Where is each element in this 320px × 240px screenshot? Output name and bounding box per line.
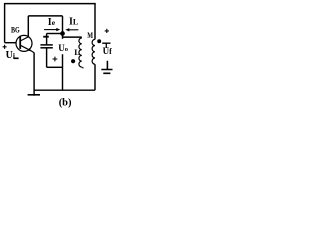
wire capacitor top	[47, 33, 63, 35]
inductor L primary coil	[79, 38, 82, 67]
wire node drop lower	[62, 54, 64, 90]
svg-text:BG: BG	[11, 24, 20, 34]
terminal T top	[102, 43, 110, 48]
transistor collector slant	[20, 37, 28, 41]
inductor secondary coil	[92, 39, 95, 64]
minus sign Uo top	[43, 36, 49, 38]
wire bottom rail	[34, 89, 95, 91]
plus sign Uf	[105, 29, 109, 33]
svg-text:L: L	[74, 47, 80, 57]
capacitor C bottom plate	[40, 47, 52, 49]
svg-text:(b): (b)	[59, 97, 72, 108]
wire inner top (collector to node)	[28, 15, 62, 17]
minus sign input	[13, 57, 18, 59]
transistor Q1 BG circle	[16, 35, 32, 51]
wire base lead	[5, 42, 17, 44]
arrow Ie	[44, 29, 57, 31]
wire top-right drop	[94, 4, 96, 40]
svg-text:IL: IL	[69, 17, 78, 28]
transistor base bar	[19, 36, 21, 49]
phase dot primary	[71, 59, 75, 63]
svg-text:Uf: Uf	[103, 46, 113, 56]
transistor emitter slant	[20, 45, 34, 53]
arrow IL	[67, 29, 78, 31]
wire emitter vertical	[33, 53, 35, 96]
svg-text:Ie: Ie	[48, 17, 56, 28]
wire secondary bottom lead	[94, 64, 96, 90]
wire tank top to L	[63, 36, 82, 38]
wire capacitor bottom	[47, 66, 63, 68]
ground left bar	[28, 94, 40, 96]
wire top	[4, 3, 96, 5]
wire collector vertical	[27, 16, 29, 37]
wire primary bottom curl	[82, 66, 84, 69]
phase dot secondary	[97, 39, 101, 43]
ground right	[101, 61, 112, 74]
wire node drop upper	[62, 16, 64, 39]
svg-text:M: M	[87, 31, 93, 40]
plus sign Uo bottom	[53, 57, 58, 62]
wire left	[4, 4, 6, 43]
transistor emitter arrow	[28, 48, 32, 51]
svg-text:Ui: Ui	[6, 50, 15, 61]
label Uo	[58, 42, 70, 52]
wire capacitor bottom lead	[46, 48, 48, 67]
node junction dot	[60, 31, 65, 36]
wire capacitor riser	[46, 34, 48, 45]
capacitor C top plate	[40, 44, 52, 46]
plus sign input	[3, 45, 7, 49]
